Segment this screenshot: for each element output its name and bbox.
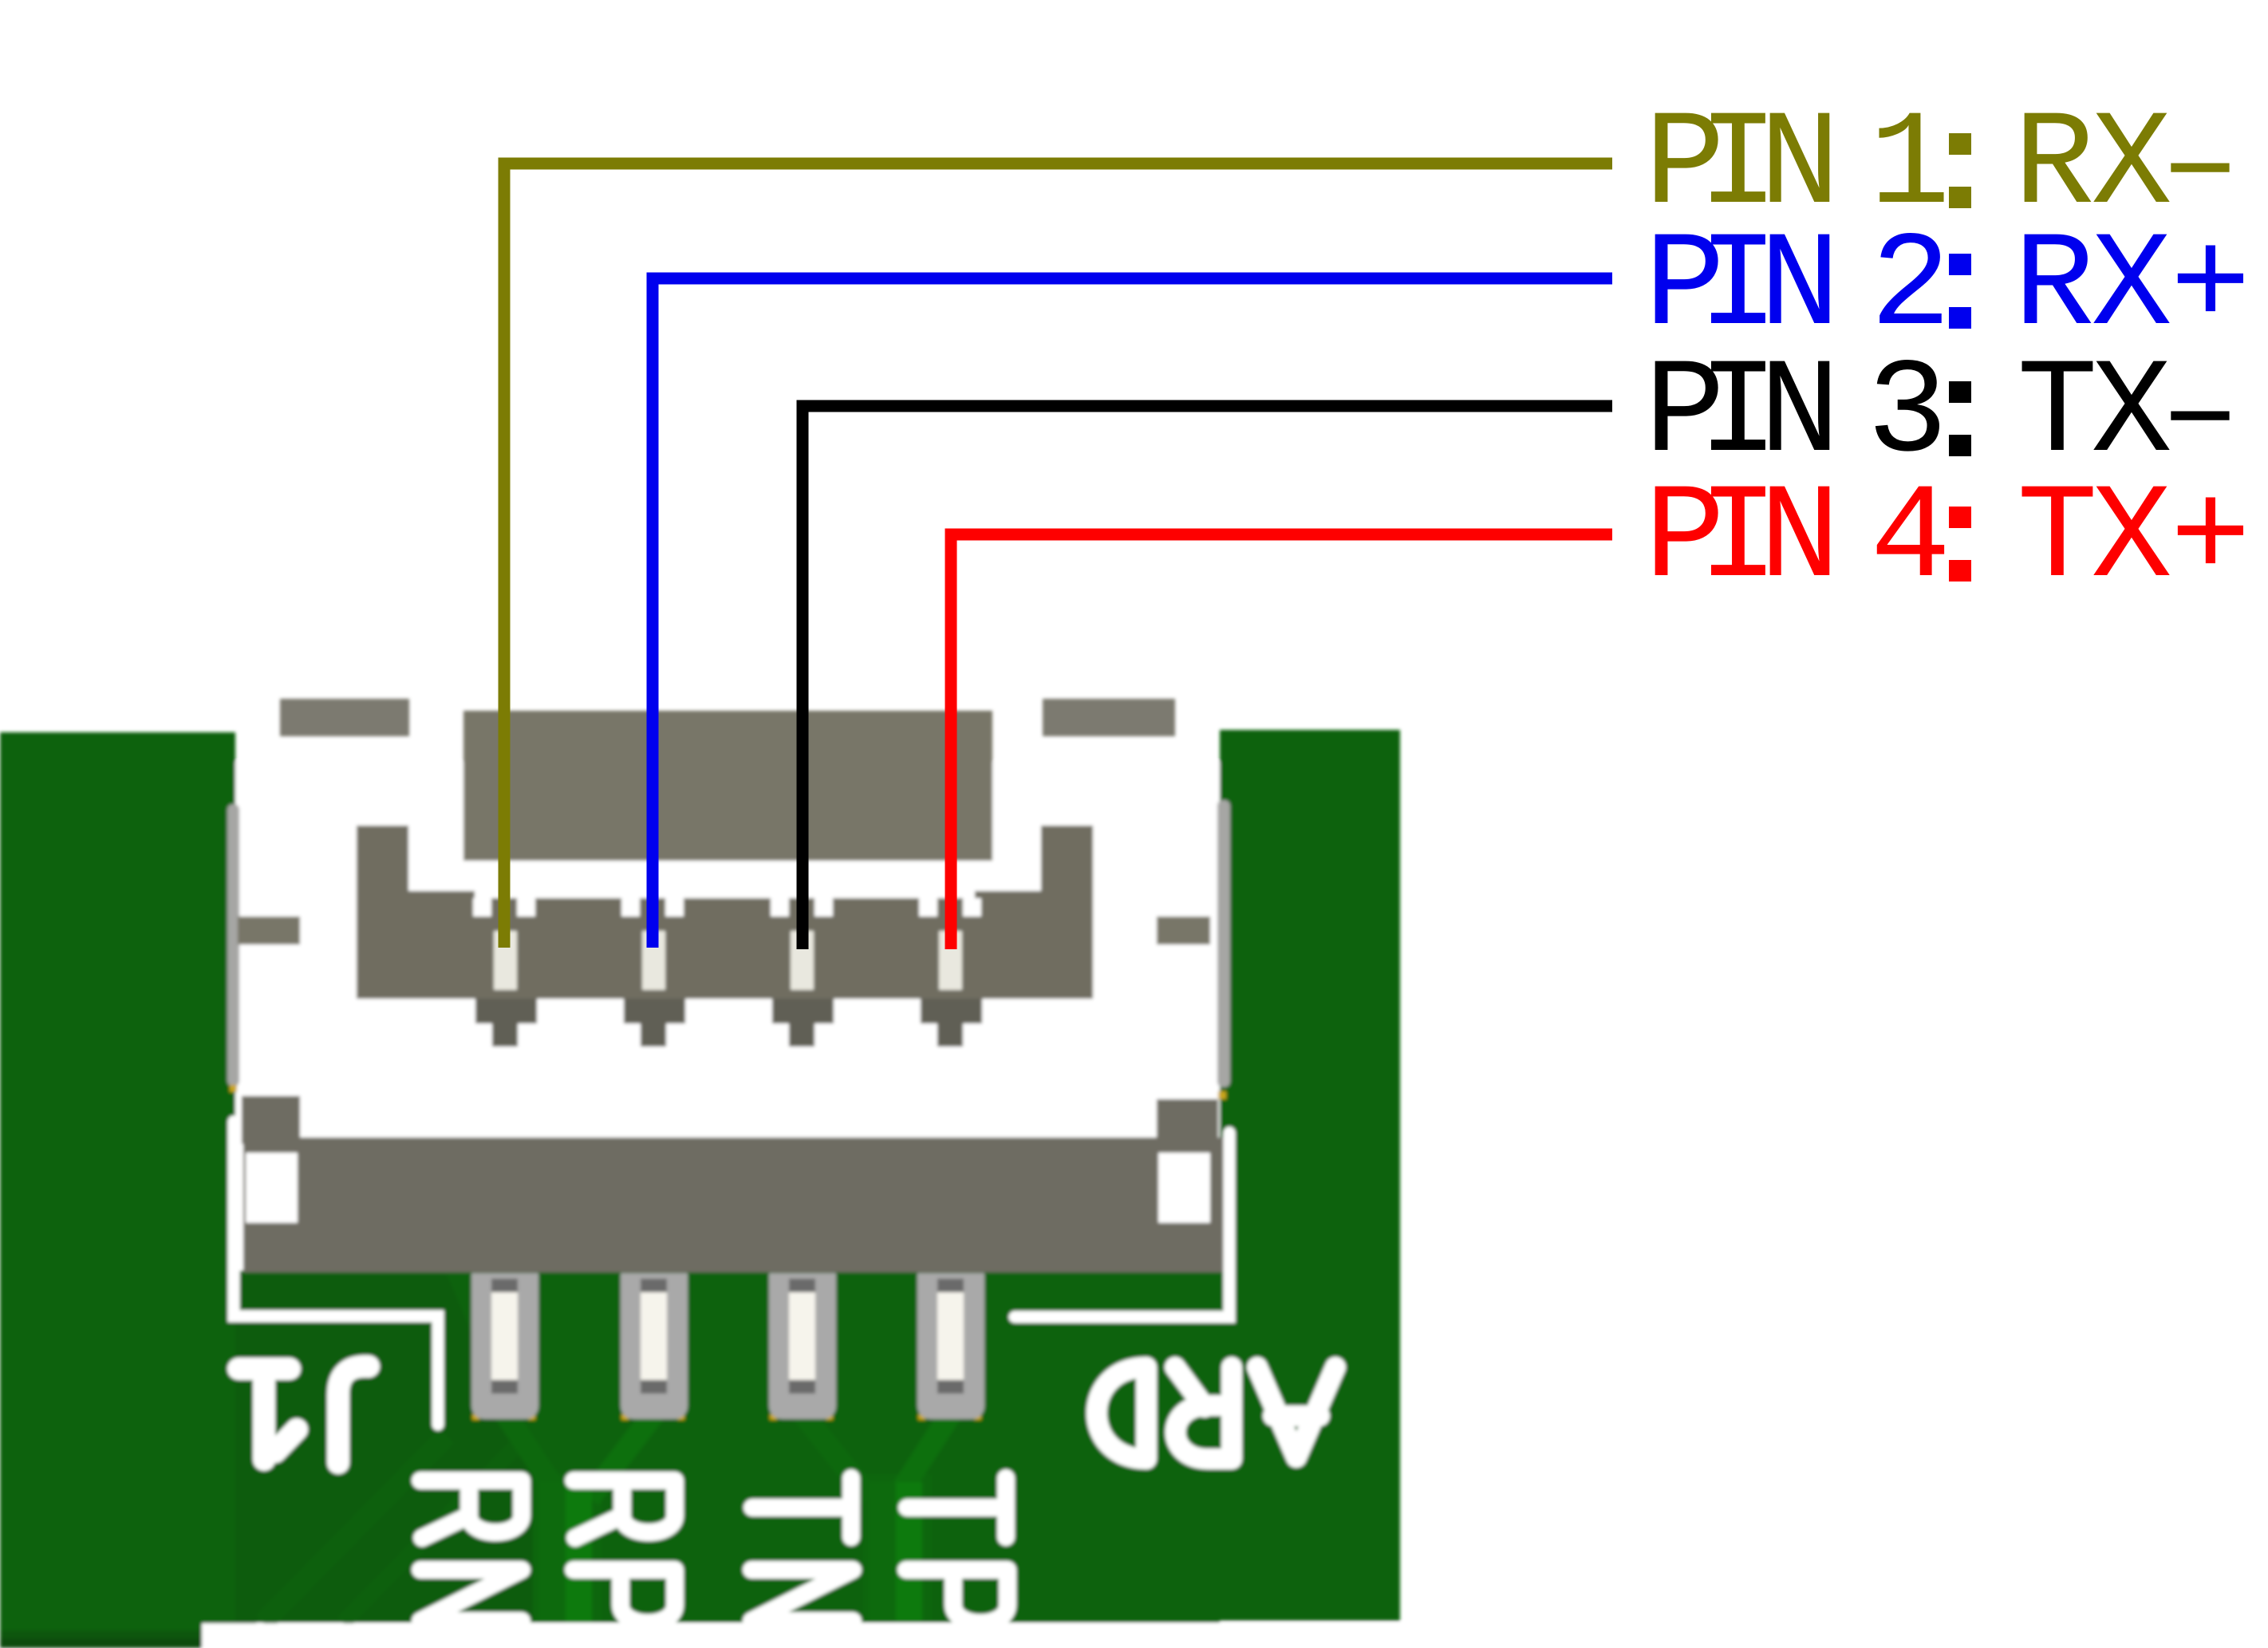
pad 1 [471, 1273, 538, 1419]
pad 3 [769, 1273, 836, 1419]
pin 3 contact [791, 931, 814, 990]
silkscreen text ARD (rotated 180) [1097, 1367, 1335, 1459]
connector bottom bar raised ends [242, 1096, 300, 1144]
connector left wing [357, 826, 408, 999]
pin 4 slot notches [919, 898, 937, 917]
PCB board J1: left green column [0, 732, 202, 1648]
letter P rot90 [906, 1570, 1008, 1623]
silkscreen pin label group TP (rot 90) [906, 1478, 1008, 1623]
wire PIN4 TX+ (red) [951, 534, 1612, 949]
connector J1 white plastic body [235, 762, 1220, 1270]
svg-text:PIN 4 TX+: PIN 4 TX+ [1644, 463, 2250, 616]
silkscreen text J1 (rotated 180) [239, 1366, 369, 1463]
letter R rot90 [574, 1480, 675, 1538]
letter R flipped [1175, 1367, 1232, 1459]
pin 1 contact [494, 931, 517, 990]
colon dots [1949, 133, 1971, 155]
trace pair B shading band [863, 1474, 932, 1621]
pad solder glints [472, 1414, 479, 1420]
letter T rot90 [907, 1478, 1006, 1537]
trace RN pad1 (light green) [505, 1413, 654, 1498]
letter R rot90 [420, 1480, 522, 1538]
silkscreen pin label group RN (rot 90) [420, 1480, 522, 1621]
silkscreen outline right [1015, 1133, 1229, 1317]
connector bottom gray bar [243, 1137, 1230, 1272]
pin 3 slot notches [771, 898, 789, 917]
pin 4 contact [939, 931, 962, 990]
connector top-right gray tab [1043, 699, 1175, 736]
connector left mid tab [238, 917, 300, 944]
pin 1 slot notches [473, 898, 491, 917]
trace pair A shading band [533, 1474, 602, 1622]
PCB board: lower green area under connector [235, 1271, 256, 1633]
PCB darker shading bottom-left [235, 1275, 533, 1622]
silkscreen outline left [234, 1122, 438, 1425]
letter N rot90 [751, 1570, 853, 1621]
letter D flipped [1097, 1367, 1146, 1459]
trace vertical pair B [870, 1482, 896, 1621]
pin 2 slot notches [621, 898, 640, 917]
silkscreen pin label group TN (rot 90) [751, 1478, 853, 1621]
silkscreen right white square [1158, 1153, 1210, 1223]
PCB board bottom edge dark sliver [0, 1630, 202, 1640]
pad 4 [917, 1273, 984, 1419]
connector contact comb bar [415, 898, 1042, 999]
connector right wing [1041, 826, 1093, 999]
letter N rot90 [420, 1570, 522, 1621]
trace TN pad3 [803, 1413, 951, 1498]
silkscreen pin1 white square [246, 1153, 298, 1223]
letter P rot90 [574, 1570, 675, 1623]
trace vertical pair A [539, 1482, 566, 1622]
pin 1 lower stub [475, 999, 537, 1047]
letter A flipped [1257, 1367, 1335, 1457]
white strip below board [202, 1623, 2268, 1648]
connector big top gray block [463, 711, 992, 861]
connector body right gray edge [1217, 800, 1230, 1087]
wire PIN3 TX- (black) [803, 406, 1612, 949]
pin 2 lower stub [624, 999, 685, 1047]
connector top-left gray tab [280, 699, 409, 736]
pad 2 [621, 1273, 688, 1419]
faint streaks bottom-left [263, 1436, 447, 1622]
wire PIN1 RX- (olive) [504, 164, 1612, 948]
wire PIN2 RX+ (blue) [653, 278, 1612, 948]
connector body left gray edge [227, 804, 239, 1086]
pin 4 lower stub [921, 999, 982, 1047]
silkscreen pin label group RP (rot 90) [574, 1480, 675, 1623]
pin 3 lower stub [772, 999, 834, 1047]
pin 2 contact [642, 931, 665, 990]
connector right mid tab [1157, 917, 1210, 944]
PCB board: right green column [1220, 730, 1400, 1621]
yellow glints at body corners [230, 1085, 237, 1092]
letter T rot90 [752, 1478, 851, 1537]
